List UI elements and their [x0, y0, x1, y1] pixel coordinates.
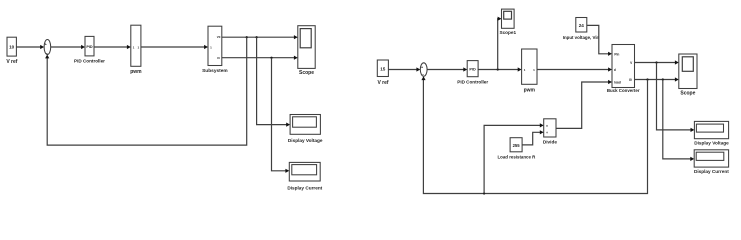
- svg-text:Buck Converter: Buck Converter: [607, 88, 640, 93]
- Scope block (right): [679, 54, 697, 96]
- wire PID to pwm: [94, 45, 131, 49]
- svg-text:PID Controller: PID Controller: [74, 59, 105, 64]
- pwm subsystem block (right): [522, 49, 537, 94]
- wire Buck V output to Scope in1: [635, 60, 679, 64]
- wire feedback loop (right diagram): [421, 76, 647, 194]
- Display Current block (right): [694, 150, 729, 174]
- svg-text:V0: V0: [217, 35, 221, 39]
- svg-text:Load resistance R: Load resistance R: [497, 155, 536, 160]
- Display Voltage block (right): [694, 121, 729, 145]
- wire Buck I0 output to Scope in2: [635, 77, 679, 81]
- wire 255 to Divide input: [522, 130, 544, 145]
- constant block 24 (Input voltage): [563, 18, 600, 41]
- svg-text:I0: I0: [629, 78, 632, 82]
- svg-text:d: d: [614, 68, 616, 72]
- svg-text:×: ×: [546, 124, 548, 128]
- sum junction S2: [420, 63, 427, 77]
- wire sum to PID (right): [427, 67, 467, 71]
- pwm subsystem block (left): [130, 25, 142, 75]
- wire branch to Display Voltage (right): [657, 63, 695, 133]
- svg-text:255: 255: [513, 143, 521, 148]
- svg-text:Display Voltage: Display Voltage: [694, 141, 729, 146]
- svg-text:Scope1: Scope1: [499, 30, 516, 35]
- svg-text:pwm: pwm: [130, 69, 142, 75]
- svg-text:PID Controller: PID Controller: [457, 80, 488, 85]
- Divide block: [543, 119, 557, 145]
- Scope1 block: [499, 9, 516, 35]
- Subsystem block: [202, 26, 228, 74]
- svg-text:−: −: [422, 73, 424, 77]
- wire PID to pwm (right) with scope1 junction: [478, 67, 521, 71]
- svg-text:Divide: Divide: [543, 139, 557, 144]
- Scope block (left): [298, 26, 315, 76]
- Buck Converter block: [607, 45, 640, 93]
- constant block 15 (V ref, right diagram): [377, 60, 389, 86]
- wire constant to sum (right): [388, 67, 420, 71]
- svg-text:I0: I0: [217, 56, 220, 60]
- svg-text:24: 24: [579, 23, 585, 28]
- svg-text:PID: PID: [86, 45, 93, 49]
- svg-text:load: load: [614, 80, 621, 84]
- svg-text:15: 15: [380, 66, 386, 71]
- wire branch to Display Current (right): [663, 80, 694, 162]
- wire V output line (Subsystem out1 to Scope in1): [222, 35, 298, 39]
- svg-text:Scope: Scope: [299, 70, 314, 76]
- Display Voltage block (left): [288, 115, 323, 144]
- svg-text:Scope: Scope: [680, 90, 695, 96]
- wire feedback branch up to Divide x input: [484, 123, 544, 193]
- svg-text:Display Current: Display Current: [694, 169, 729, 174]
- wire branch to Display Current (left): [272, 58, 290, 173]
- wire I output line (Subsystem out2 to Scope in2): [222, 56, 298, 60]
- svg-text:Subsystem: Subsystem: [202, 68, 228, 74]
- wire feedback loop (left diagram): [45, 37, 247, 145]
- sum junction S1: [44, 40, 51, 56]
- svg-text:÷: ÷: [546, 131, 548, 135]
- wire sum to PID: [51, 45, 85, 49]
- svg-text:−: −: [46, 51, 48, 55]
- PID Controller block (right): [457, 61, 488, 85]
- constant block 10 (V ref, left diagram): [6, 37, 17, 65]
- Display Current block (left): [287, 162, 322, 190]
- wire constant to sum: [16, 45, 44, 49]
- wire branch up to Scope1: [498, 17, 502, 70]
- wire pwm to Subsystem: [141, 45, 208, 49]
- svg-text:10: 10: [9, 45, 15, 50]
- svg-text:Input voltage, Vin: Input voltage, Vin: [563, 35, 600, 40]
- svg-text:Display Voltage: Display Voltage: [288, 138, 323, 143]
- svg-text:V ref: V ref: [377, 80, 388, 86]
- svg-text:pwm: pwm: [524, 88, 536, 94]
- wire 24 to Buck Pin input: [587, 25, 612, 56]
- svg-text:Display Current: Display Current: [287, 185, 322, 190]
- svg-text:+: +: [421, 65, 423, 69]
- wire pwm to Buck Converter d input: [537, 67, 612, 71]
- constant block 255 (Load resistance R): [497, 138, 536, 160]
- svg-text:PID: PID: [469, 68, 476, 72]
- PID Controller block (left): [74, 36, 105, 63]
- svg-text:+: +: [45, 43, 47, 47]
- svg-text:Pin: Pin: [614, 52, 619, 56]
- wire branch to Display Voltage (left): [257, 37, 291, 127]
- svg-text:V ref: V ref: [6, 59, 17, 65]
- wire Divide output to Buck load input: [556, 80, 612, 128]
